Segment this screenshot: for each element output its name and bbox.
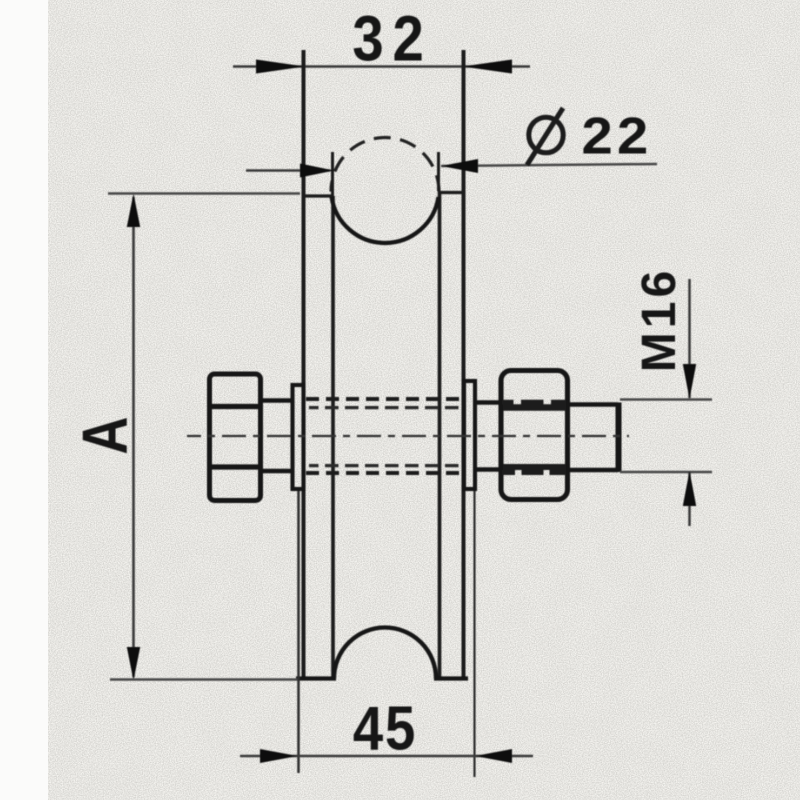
hidden thread minor dash top bbox=[309, 406, 463, 409]
hidden thread minor dash bottom bbox=[309, 464, 463, 467]
svg-text:M16: M16 bbox=[633, 267, 686, 372]
hidden thread major dash bottom bbox=[306, 471, 463, 475]
nut facet lower main line bbox=[503, 464, 566, 470]
bolt head facet line lower bbox=[211, 464, 259, 469]
svg-text:A: A bbox=[70, 417, 141, 455]
dia22 right arrowhead bbox=[441, 159, 478, 173]
hidden thread major dash top bbox=[306, 397, 463, 401]
svg-text:45: 45 bbox=[353, 694, 417, 763]
thread stub bottom line bbox=[567, 468, 618, 473]
bottom groove arch bbox=[334, 628, 436, 679]
thread stub end cap bbox=[616, 403, 622, 473]
45 right arrowhead bbox=[475, 749, 512, 763]
45 extension line right bbox=[473, 490, 475, 777]
wheel bottom face left bbox=[296, 676, 336, 680]
left washer plate bbox=[293, 385, 304, 489]
bolt shank left bottom bbox=[260, 469, 294, 474]
svg-text:22: 22 bbox=[581, 107, 652, 165]
A dimension line bbox=[132, 197, 135, 677]
dimension 32 right arrowhead bbox=[463, 60, 513, 74]
bolt head outline bbox=[210, 374, 261, 501]
dia22 tangent tick left bbox=[331, 152, 334, 196]
centerline axis bbox=[187, 435, 629, 437]
M16 extension line top bbox=[620, 398, 712, 400]
A top extension line bbox=[108, 192, 300, 194]
svg-text:32: 32 bbox=[352, 2, 432, 74]
45 left arrowhead bbox=[260, 749, 298, 763]
wheel right outer flange line / 32 extension bbox=[462, 50, 466, 679]
wheel left inner flange line bbox=[331, 196, 335, 677]
A bottom arrowhead bbox=[127, 647, 140, 681]
45 extension line left bbox=[297, 490, 300, 773]
bolt shank left top bbox=[260, 398, 294, 403]
M16 upper arrowhead bbox=[683, 364, 696, 399]
hex nut outline bbox=[501, 371, 568, 500]
bolt shank right bottom bbox=[475, 467, 503, 472]
dia22 tangent tick right bbox=[437, 152, 440, 191]
dia22 left arrow line bbox=[246, 169, 330, 172]
groove arc solid (lower part of circle) bbox=[332, 197, 439, 243]
wheel left outer flange line / 32 extension bbox=[302, 50, 306, 679]
right washer plate bbox=[464, 381, 475, 489]
45 dim line bbox=[240, 755, 533, 758]
bolt head facet line upper bbox=[211, 404, 259, 409]
dia22 left arrowhead bbox=[300, 164, 334, 178]
nut facet lower chamfer segments bbox=[502, 470, 566, 475]
M16 dim line lower segment bbox=[688, 472, 691, 526]
dimension 32 dim line bbox=[233, 65, 530, 68]
thread stub top line bbox=[567, 402, 618, 407]
wheel bottom face right bbox=[434, 676, 468, 680]
dia22 diameter symbol bbox=[527, 108, 563, 165]
wheel rim top face left bbox=[302, 194, 334, 197]
M16 extension line bottom bbox=[620, 471, 712, 473]
nut facet upper main line bbox=[503, 404, 566, 411]
wheel right inner flange line bbox=[438, 191, 442, 677]
wheel rim top face right bbox=[438, 191, 465, 194]
dimension 32 left arrowhead bbox=[256, 60, 305, 74]
M16 lower arrowhead bbox=[683, 471, 696, 506]
nut facet upper chamfer segments bbox=[502, 400, 566, 405]
dia22 leader line right bbox=[441, 164, 657, 166]
rope circle dia22 dashed upper arc bbox=[331, 138, 439, 192]
A top arrowhead bbox=[127, 194, 140, 228]
A bottom extension line bbox=[110, 678, 298, 680]
bolt shank right top bbox=[475, 400, 503, 405]
M16 dim line upper segment bbox=[688, 279, 691, 398]
